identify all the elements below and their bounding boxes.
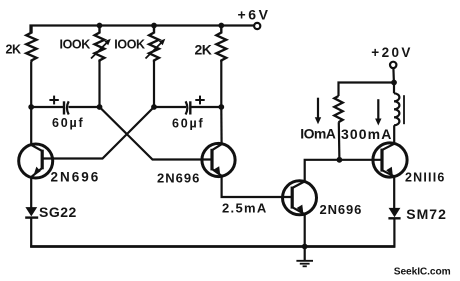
resistor R5 [334,96,342,122]
node E junction [391,80,397,86]
wire C1 to node B [69,106,100,108]
ground [304,247,306,261]
wire D2 to bottom rail [393,218,395,247]
svg-text:60µf: 60µf [172,116,204,130]
resistor R3 100K variable [149,26,159,63]
core bar of L1 [403,95,405,124]
arrow 10mA [317,98,319,118]
wire node D down to Q2 collector [220,107,223,144]
wire +20V to node E [392,68,395,83]
svg-text:2K: 2K [6,42,21,56]
svg-text:SG22: SG22 [39,204,77,220]
diode D2 SM72 [389,208,401,217]
svg-text:IOOK: IOOK [114,38,145,52]
junction rail R4 [218,23,224,29]
wire node C to capacitor C2 [154,106,186,108]
svg-text:2N696: 2N696 [51,169,101,184]
wire node E left and down to R5 [339,83,395,97]
wire Q3 emitter to ground rail [304,214,306,246]
capacitor C2 60uf [186,101,188,114]
svg-text:60µf: 60µf [52,116,84,130]
node C junction [151,104,157,110]
wire top supply rail [31,26,254,34]
wire R2 bottom to node B [98,62,100,107]
wire Q4 emitter down to D2 [393,176,395,208]
svg-text:+6V: +6V [238,7,271,23]
transistor Q4 2N1116 [373,143,407,177]
resistor R4 2K [216,26,226,63]
svg-text:SeekIC.com: SeekIC.com [394,266,451,277]
node D junction [218,104,224,110]
+20V terminal [390,62,396,68]
svg-text:300mA: 300mA [341,126,392,142]
inductor L1 [393,83,395,94]
wire R5 bottom to node F [338,122,341,160]
svg-text:2N696: 2N696 [320,202,363,217]
wire cross-coupling node C to Q1 base [43,107,154,159]
node B junction [97,104,103,110]
wire L1 bottom to Q4 collector [393,125,395,144]
wire R3 bottom to node C [153,62,155,107]
transistor Q2 2N696 [202,143,235,176]
svg-text:+20V: +20V [371,45,413,60]
wire Q2 emitter to Q3 base [222,176,293,197]
svg-text:2N696: 2N696 [157,171,200,186]
plus sign of C2 [195,99,204,101]
resistor R1 2K [26,26,36,63]
transistor Q3 2N696 [283,181,317,215]
wire node A to capacitor C1 [31,106,63,108]
node A junction [28,104,34,110]
svg-text:IOmA: IOmA [300,125,335,141]
resistor R2 100K variable [95,26,105,63]
wire D1 to bottom rail [30,218,32,248]
wire cross-coupling node B to Q2 base [100,107,213,160]
+6V terminal [254,23,260,29]
arrow 300mA [377,99,379,119]
wire Q1 emitter down to D1 [30,177,32,207]
capacitor C1 60uf [63,101,65,114]
junction rail R3 [151,23,157,29]
node G junction ground [302,244,308,250]
wire bottom ground rail [30,245,395,248]
wire R1 bottom to node A [30,62,32,107]
wire C2 to node D [190,106,221,108]
node F junction [337,157,343,163]
transistor Q1 2N696 [19,144,53,178]
plus sign of C1 [49,99,58,101]
wire R4 bottom to node D [220,62,222,107]
arrow of R2 [91,43,107,59]
svg-text:IOOK: IOOK [60,38,91,52]
svg-text:SM72: SM72 [406,206,447,222]
svg-text:2.5mA: 2.5mA [222,200,268,215]
junction rail R2 [97,23,103,29]
svg-text:2NIII6: 2NIII6 [405,170,446,184]
wire node A down to Q1 collector [30,107,32,145]
svg-text:2K: 2K [195,41,212,57]
wire Q3 collector up and right to Q4 base [305,160,382,182]
arrow of R3 [146,43,162,59]
diode D1 SG22 [25,207,37,216]
